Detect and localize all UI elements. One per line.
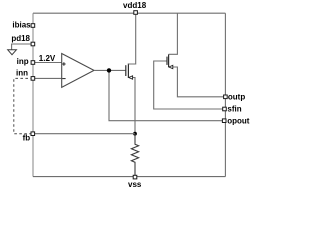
svg-text:sfin: sfin: [227, 105, 241, 114]
wire right vertical bus: [224, 13, 226, 176]
resistor R1: [131, 134, 138, 177]
junction opamp-out node: [107, 68, 111, 72]
wire opout net: [109, 70, 223, 120]
wire vdd18 top rail: [33, 12, 225, 14]
wire inn to op-amp: [33, 77, 62, 79]
svg-text:fb: fb: [23, 134, 31, 143]
terminal inp: [31, 61, 35, 65]
wire sfin net to M2 gate: [154, 61, 224, 109]
terminal fb: [31, 132, 35, 136]
terminal outp: [224, 95, 228, 99]
terminal sfin: [223, 107, 227, 111]
wire left vertical bus: [32, 13, 34, 176]
wire vss bottom rail: [33, 176, 225, 178]
wire fb line: [33, 133, 135, 135]
svg-text:pd18: pd18: [11, 34, 30, 43]
wire pd18 to ground: [12, 44, 33, 50]
wire inn to fb (dashed): [14, 78, 33, 133]
svg-text:ibias: ibias: [12, 21, 31, 30]
svg-text:opout: opout: [227, 116, 250, 125]
terminal pd18: [31, 42, 35, 46]
svg-text:inn: inn: [16, 69, 28, 78]
wire inp to op-amp: [33, 62, 62, 64]
svg-text:1.2V: 1.2V: [39, 54, 56, 63]
wire op-amp output: [94, 69, 126, 71]
junction fb node: [133, 132, 137, 136]
terminal inn: [31, 77, 35, 81]
op-amp U1: [62, 54, 94, 88]
terminal opout: [222, 119, 226, 123]
transistor M1 (NMOS source follower): [126, 15, 136, 134]
svg-text:vss: vss: [128, 180, 142, 189]
svg-text:outp: outp: [228, 92, 245, 101]
svg-text:inp: inp: [17, 57, 29, 66]
ground: [8, 50, 17, 55]
terminal vss: [133, 175, 137, 179]
svg-text:vdd18: vdd18: [123, 1, 147, 10]
terminal vdd18: [134, 11, 138, 15]
transistor M2 (NMOS source follower): [167, 13, 223, 97]
terminal ibias: [31, 24, 35, 28]
